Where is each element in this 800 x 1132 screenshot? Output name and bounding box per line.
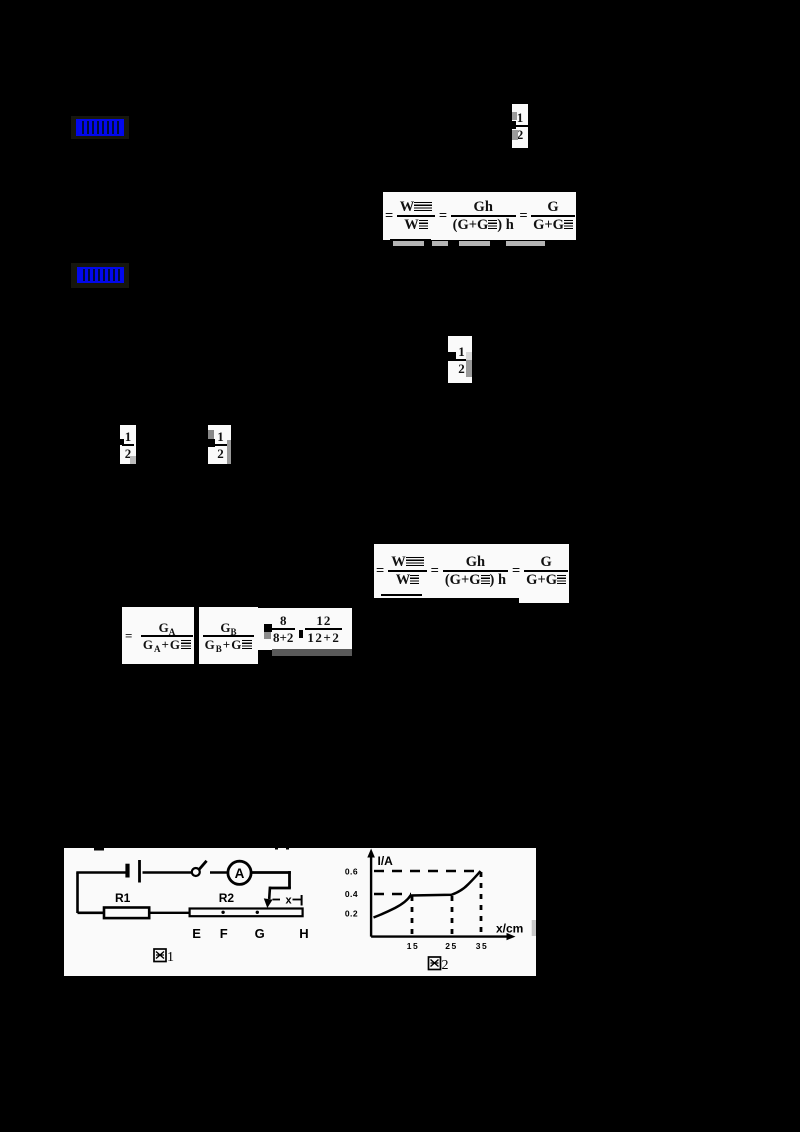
dashed vertical x=35	[480, 872, 483, 936]
x measure marks	[273, 899, 281, 901]
formula patch F3a : = GA/(GA+G轮)	[122, 607, 194, 664]
wire ammeter to right corner	[251, 871, 290, 874]
svg-text:R2: R2	[219, 891, 235, 905]
battery short thick plate	[125, 864, 129, 878]
wire right vertical down	[288, 871, 291, 888]
svg-text:F: F	[220, 926, 228, 941]
svg-text:1: 1	[167, 950, 174, 965]
svg-text:R1: R1	[115, 891, 131, 905]
svg-text:x: x	[286, 895, 293, 907]
wire switch to ammeter	[210, 871, 229, 874]
svg-text:A: A	[235, 866, 245, 881]
graph x-axis	[371, 935, 508, 937]
svg-text:H: H	[299, 926, 308, 941]
svg-text:2: 2	[442, 958, 449, 973]
formula patch F1 : = W有用/W总 = Gh/((G+G轮)h) = G/(G+G轮)	[383, 192, 576, 240]
svg-text:x/cm: x/cm	[496, 922, 523, 936]
formula patch F3c : = 8/(8+2) < 12/(12+2)	[258, 608, 352, 650]
battery long thin plate	[138, 860, 141, 883]
formula patch F2 : = W有用/W总 = Gh/((G+G轮)h) = G/(G+G轮)	[374, 544, 569, 598]
wire R1 to R2	[149, 912, 189, 914]
wire: top run to battery	[76, 871, 126, 874]
svg-text:35: 35	[476, 941, 488, 951]
graph y-axis	[370, 854, 372, 937]
dashed 0.4 line	[374, 893, 411, 895]
switch lever	[199, 861, 206, 870]
blue label 1 (【解答】 highlight box)	[71, 116, 129, 139]
dashed vertical x=15	[411, 896, 414, 936]
wire bottom left to R1	[78, 911, 105, 914]
wire jog left	[270, 887, 291, 890]
gray sliver	[532, 920, 536, 936]
wiper wire down with arrow	[268, 887, 271, 899]
formula patch P1 : = 1/2	[512, 104, 528, 148]
svg-text:0.2: 0.2	[345, 909, 358, 919]
black nubs on top edge	[94, 848, 104, 851]
图2 caption	[429, 957, 441, 970]
contact dots F G	[221, 911, 224, 914]
rheostat R2 box	[190, 909, 303, 917]
underline below W总	[390, 239, 431, 241]
switch pivot circle	[192, 868, 200, 876]
I-x curve	[374, 871, 481, 918]
wire: left vertical	[76, 873, 79, 914]
formula patch P4 : = 1/2	[208, 425, 231, 464]
dashed 0.6 line	[374, 870, 482, 872]
blue label 2 (【解答】 highlight box)	[71, 263, 129, 288]
svg-text:E: E	[192, 926, 201, 941]
wire battery to switch	[143, 871, 192, 873]
dashed vertical x=25	[451, 896, 454, 936]
formula patch F3b : GB/(GB+G轮)	[199, 607, 258, 664]
svg-text:I/A: I/A	[378, 854, 394, 868]
formula patch P2 : = 1/2	[448, 336, 472, 383]
图1 caption	[154, 949, 166, 962]
resistor R1 box	[104, 908, 149, 919]
figure band : white area with 图1 circuit and 图2 graph	[64, 848, 536, 976]
svg-text:0.6: 0.6	[345, 867, 358, 877]
svg-text:0.4: 0.4	[345, 889, 358, 899]
svg-text:G: G	[255, 926, 265, 941]
ammeter A	[228, 861, 251, 884]
svg-text:15: 15	[407, 941, 419, 951]
formula patch P3 : 1/2	[120, 425, 136, 464]
svg-text:25: 25	[445, 941, 457, 951]
